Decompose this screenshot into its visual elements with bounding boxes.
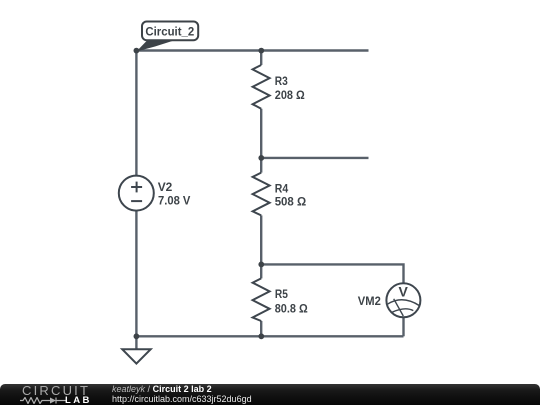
svg-text:208 Ω: 208 Ω <box>275 88 305 102</box>
svg-text:7.08 V: 7.08 V <box>158 193 190 207</box>
svg-text:V2: V2 <box>158 180 173 194</box>
svg-text:Circuit_2: Circuit_2 <box>145 26 194 38</box>
svg-text:V: V <box>399 284 409 300</box>
svg-text:508 Ω: 508 Ω <box>275 194 307 208</box>
svg-text:80.8 Ω: 80.8 Ω <box>275 301 308 315</box>
svg-text:R3: R3 <box>275 74 288 88</box>
svg-text:R4: R4 <box>275 181 289 195</box>
svg-text:VM2: VM2 <box>358 294 381 308</box>
svg-text:R5: R5 <box>275 287 288 301</box>
